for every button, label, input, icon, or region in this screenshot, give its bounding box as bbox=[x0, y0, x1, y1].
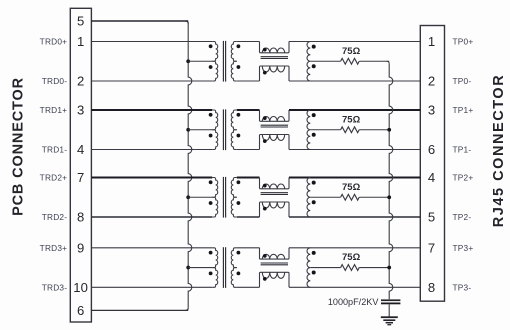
svg-text:75Ω: 75Ω bbox=[342, 252, 361, 263]
svg-text:5: 5 bbox=[77, 14, 84, 29]
svg-text:1: 1 bbox=[428, 34, 435, 49]
svg-text:TP3+: TP3+ bbox=[453, 243, 474, 253]
svg-text:2: 2 bbox=[428, 74, 435, 89]
svg-text:TRD2-: TRD2- bbox=[42, 212, 67, 222]
svg-text:TP0-: TP0- bbox=[453, 76, 472, 86]
svg-text:RJ45 CONNECTOR: RJ45 CONNECTOR bbox=[491, 74, 507, 228]
svg-text:75Ω: 75Ω bbox=[342, 114, 361, 125]
svg-text:6: 6 bbox=[77, 303, 84, 318]
svg-text:1000pF/2KV: 1000pF/2KV bbox=[328, 297, 379, 307]
svg-text:TRD2+: TRD2+ bbox=[40, 173, 68, 183]
svg-text:4: 4 bbox=[77, 142, 84, 157]
svg-text:TRD3+: TRD3+ bbox=[40, 243, 68, 253]
svg-text:TRD0+: TRD0+ bbox=[40, 37, 68, 47]
svg-text:2: 2 bbox=[77, 74, 84, 89]
svg-text:TRD0-: TRD0- bbox=[42, 76, 67, 86]
svg-text:5: 5 bbox=[428, 210, 435, 225]
svg-text:75Ω: 75Ω bbox=[342, 46, 361, 57]
svg-text:TP1-: TP1- bbox=[453, 145, 472, 155]
svg-text:10: 10 bbox=[73, 280, 88, 295]
svg-text:TP2-: TP2- bbox=[453, 212, 472, 222]
svg-text:7: 7 bbox=[77, 170, 84, 185]
svg-text:6: 6 bbox=[428, 142, 435, 157]
svg-text:4: 4 bbox=[428, 170, 435, 185]
svg-text:3: 3 bbox=[428, 103, 435, 118]
svg-text:7: 7 bbox=[428, 241, 435, 256]
svg-text:TP1+: TP1+ bbox=[453, 105, 474, 115]
svg-text:TP0+: TP0+ bbox=[453, 37, 474, 47]
svg-text:TRD1+: TRD1+ bbox=[40, 105, 68, 115]
svg-text:3: 3 bbox=[77, 103, 84, 118]
svg-text:PCB CONNECTOR: PCB CONNECTOR bbox=[10, 77, 26, 216]
svg-text:TRD3-: TRD3- bbox=[42, 282, 67, 292]
svg-text:TRD1-: TRD1- bbox=[42, 145, 67, 155]
svg-text:TP2+: TP2+ bbox=[453, 173, 474, 183]
svg-text:1: 1 bbox=[77, 34, 84, 49]
svg-text:TP3-: TP3- bbox=[453, 282, 472, 292]
svg-text:9: 9 bbox=[77, 241, 84, 256]
svg-text:75Ω: 75Ω bbox=[342, 182, 361, 193]
svg-text:8: 8 bbox=[77, 210, 84, 225]
svg-text:8: 8 bbox=[428, 280, 435, 295]
